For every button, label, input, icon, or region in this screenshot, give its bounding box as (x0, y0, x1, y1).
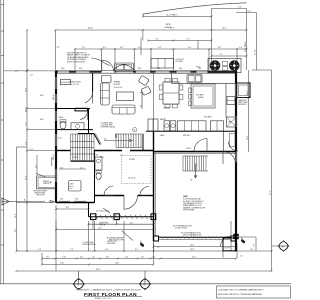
svg-text:2850: 2850 (60, 199, 63, 201)
svg-text:4'-10": 4'-10" (62, 257, 66, 259)
svg-text:FT. 885 SQ FT. + GARAGE 606 SQ: FT. 885 SQ FT. + GARAGE 606 SQ FT. + FRO… (76, 288, 141, 291)
svg-text:31'-10": 31'-10" (255, 49, 257, 55)
svg-text:5'-0": 5'-0" (35, 165, 37, 168)
svg-text:MUD RM: MUD RM (183, 135, 190, 137)
svg-text:4 CONC. FILLED: 4 CONC. FILLED (175, 228, 188, 230)
svg-text:8'-0": 8'-0" (218, 47, 222, 49)
svg-text:16'-8": 16'-8" (115, 263, 119, 265)
svg-text:16'-0": 16'-0" (190, 245, 195, 247)
svg-text:6'-0": 6'-0" (135, 249, 139, 251)
svg-text:10-0 x: 10-0 x (69, 186, 73, 188)
svg-text:KITCHEN: KITCHEN (176, 61, 184, 63)
svg-text:56'-0": 56'-0" (96, 269, 101, 271)
svg-text:3050: 3050 (61, 68, 64, 70)
svg-text:AND POSTS (TYP): AND POSTS (TYP) (109, 239, 124, 242)
svg-text:5'-0": 5'-0" (248, 11, 252, 13)
svg-text:DINING ROOM: DINING ROOM (69, 81, 81, 83)
svg-text:2850: 2850 (179, 68, 182, 70)
svg-text:REF: REF (229, 122, 232, 124)
svg-text:W/ BROOM FINISH: W/ BROOM FINISH (82, 244, 95, 246)
svg-text:WITH OWNER: WITH OWNER (183, 210, 195, 212)
svg-text:4'-0": 4'-0" (92, 257, 96, 259)
svg-text:11'-0 x 12'-8: 11'-0 x 12'-8 (71, 84, 80, 86)
svg-text:3050: 3050 (79, 68, 82, 70)
svg-text:PORCH: PORCH (99, 225, 106, 227)
svg-text:EGRESS: EGRESS (43, 181, 49, 183)
svg-text:KITCHEN: KITCHEN (196, 95, 204, 97)
svg-text:7'-4": 7'-4" (186, 39, 190, 41)
svg-text:PRIOR TO ROUGH-IN: PRIOR TO ROUGH-IN (67, 61, 85, 63)
svg-text:2'-4": 2'-4" (239, 47, 243, 49)
svg-text:PER CODE: PER CODE (37, 194, 45, 196)
svg-text:6'-0": 6'-0" (130, 222, 134, 224)
svg-text:7'-0": 7'-0" (70, 249, 74, 251)
svg-text:SCALE : 1/4" = 1'-0": SCALE : 1/4" = 1'-0" (95, 297, 112, 300)
svg-text:16'-0": 16'-0" (247, 135, 249, 140)
svg-text:5'-0": 5'-0" (138, 47, 142, 49)
svg-text:22'-8": 22'-8" (190, 249, 195, 251)
svg-text:6'-0": 6'-0" (103, 47, 107, 49)
svg-text:5'-0": 5'-0" (30, 75, 33, 77)
svg-text:DIRECT VENT: DIRECT VENT (238, 102, 248, 104)
svg-text:6'-0": 6'-0" (99, 222, 103, 224)
svg-text:8'-0": 8'-0" (66, 207, 70, 209)
svg-text:13'-8 CLG: 13'-8 CLG (128, 178, 136, 180)
svg-text:5'-0": 5'-0" (220, 54, 224, 56)
svg-text:PROVIDE EGRESS: PROVIDE EGRESS (34, 190, 47, 192)
svg-text:2850: 2850 (198, 68, 201, 70)
svg-text:2'-8": 2'-8" (80, 257, 84, 259)
svg-text:7'-0": 7'-0" (25, 141, 27, 145)
svg-text:5050 SL: 5050 SL (186, 148, 192, 150)
svg-text:3'-4": 3'-4" (30, 149, 33, 151)
svg-text:2850 SH: 2850 SH (53, 95, 55, 100)
svg-text:12'-2": 12'-2" (222, 28, 227, 30)
svg-text:12'-8": 12'-8" (25, 87, 27, 92)
svg-text:2850: 2850 (40, 119, 43, 121)
svg-text:6'-6": 6'-6" (57, 47, 61, 49)
svg-text:19-4 x 16-8: 19-4 x 16-8 (114, 87, 122, 89)
svg-text:KITCHEN: KITCHEN (204, 117, 212, 119)
svg-text:2850: 2850 (40, 95, 43, 97)
svg-text:WINDOW WELL: WINDOW WELL (35, 192, 46, 194)
svg-text:6'-0": 6'-0" (105, 249, 109, 251)
svg-text:5'-0": 5'-0" (157, 247, 160, 249)
svg-text:5'-0": 5'-0" (38, 249, 42, 251)
svg-text:GAR.: GAR. (183, 195, 188, 198)
svg-text:4'-8": 4'-8" (120, 47, 124, 49)
svg-text:W.I.C.: W.I.C. (58, 138, 63, 140)
svg-text:5'-8": 5'-8" (106, 257, 110, 259)
svg-text:21'-2": 21'-2" (270, 190, 272, 195)
svg-text:6'-4": 6'-4" (125, 257, 129, 259)
svg-text:6'-4": 6'-4" (158, 47, 162, 49)
svg-text:3'-0": 3'-0" (46, 257, 50, 259)
svg-text:6'-10": 6'-10" (60, 263, 64, 265)
svg-text:6x6 P.T. POST: 6x6 P.T. POST (107, 241, 117, 243)
svg-text:CONTRACTOR TO CONFIRM DIMENSIO: CONTRACTOR TO CONFIRM DIMENSIONS O (218, 288, 264, 291)
svg-text:COFFERED CEILING: COFFERED CEILING (101, 127, 117, 129)
svg-text:UP 16R: UP 16R (73, 157, 79, 159)
svg-text:2'-4": 2'-4" (82, 47, 86, 49)
svg-text:2850: 2850 (138, 68, 141, 70)
svg-text:21'-4": 21'-4" (98, 228, 102, 230)
svg-text:3'-0": 3'-0" (238, 6, 242, 8)
svg-text:2850 SH: 2850 SH (53, 155, 55, 160)
svg-text:ROOM: ROOM (114, 84, 121, 86)
svg-text:UNDER: UNDER (165, 27, 172, 29)
svg-text:11-0: 11-0 (69, 188, 72, 190)
svg-text:SEE SPECS: SEE SPECS (238, 104, 247, 106)
svg-text:20'-4": 20'-4" (192, 257, 196, 259)
svg-text:STOOP: STOOP (225, 248, 230, 250)
svg-text:BUILDING PRIOR TO ORDERING MAT: BUILDING PRIOR TO ORDERING MATERIAL (218, 293, 263, 296)
svg-text:1'-6": 1'-6" (240, 256, 243, 258)
svg-text:2850: 2850 (157, 68, 160, 70)
svg-text:56'-0": 56'-0" (88, 28, 94, 30)
svg-text:GREAT: GREAT (114, 80, 122, 83)
svg-text:7'-4": 7'-4" (155, 39, 159, 41)
svg-text:OUTDOOR: OUTDOOR (176, 59, 185, 61)
svg-text:9'-0": 9'-0" (188, 47, 192, 49)
svg-text:10'-0": 10'-0" (15, 213, 17, 218)
svg-text:4'-0": 4'-0" (15, 228, 17, 232)
svg-text:FIRST FLOOR PLAN: FIRST FLOOR PLAN (84, 292, 137, 298)
svg-text:3'-4": 3'-4" (141, 257, 145, 259)
svg-text:PATIO: PATIO (166, 23, 172, 26)
svg-text:4'-2": 4'-2" (253, 243, 255, 247)
svg-text:9'-0": 9'-0" (250, 249, 254, 251)
svg-text:22'-0" PATIO: 22'-0" PATIO (166, 14, 178, 17)
svg-text:WINDOW: WINDOW (43, 183, 50, 185)
svg-text:DINETTE: DINETTE (164, 108, 171, 110)
svg-text:3'-0": 3'-0" (120, 154, 123, 156)
svg-text:2850: 2850 (75, 199, 78, 201)
svg-text:21'-2" PATIO: 21'-2" PATIO (244, 41, 247, 52)
svg-text:7'-0": 7'-0" (25, 122, 27, 126)
svg-text:FOYER: FOYER (129, 159, 136, 161)
svg-text:17'-4": 17'-4" (25, 175, 27, 180)
